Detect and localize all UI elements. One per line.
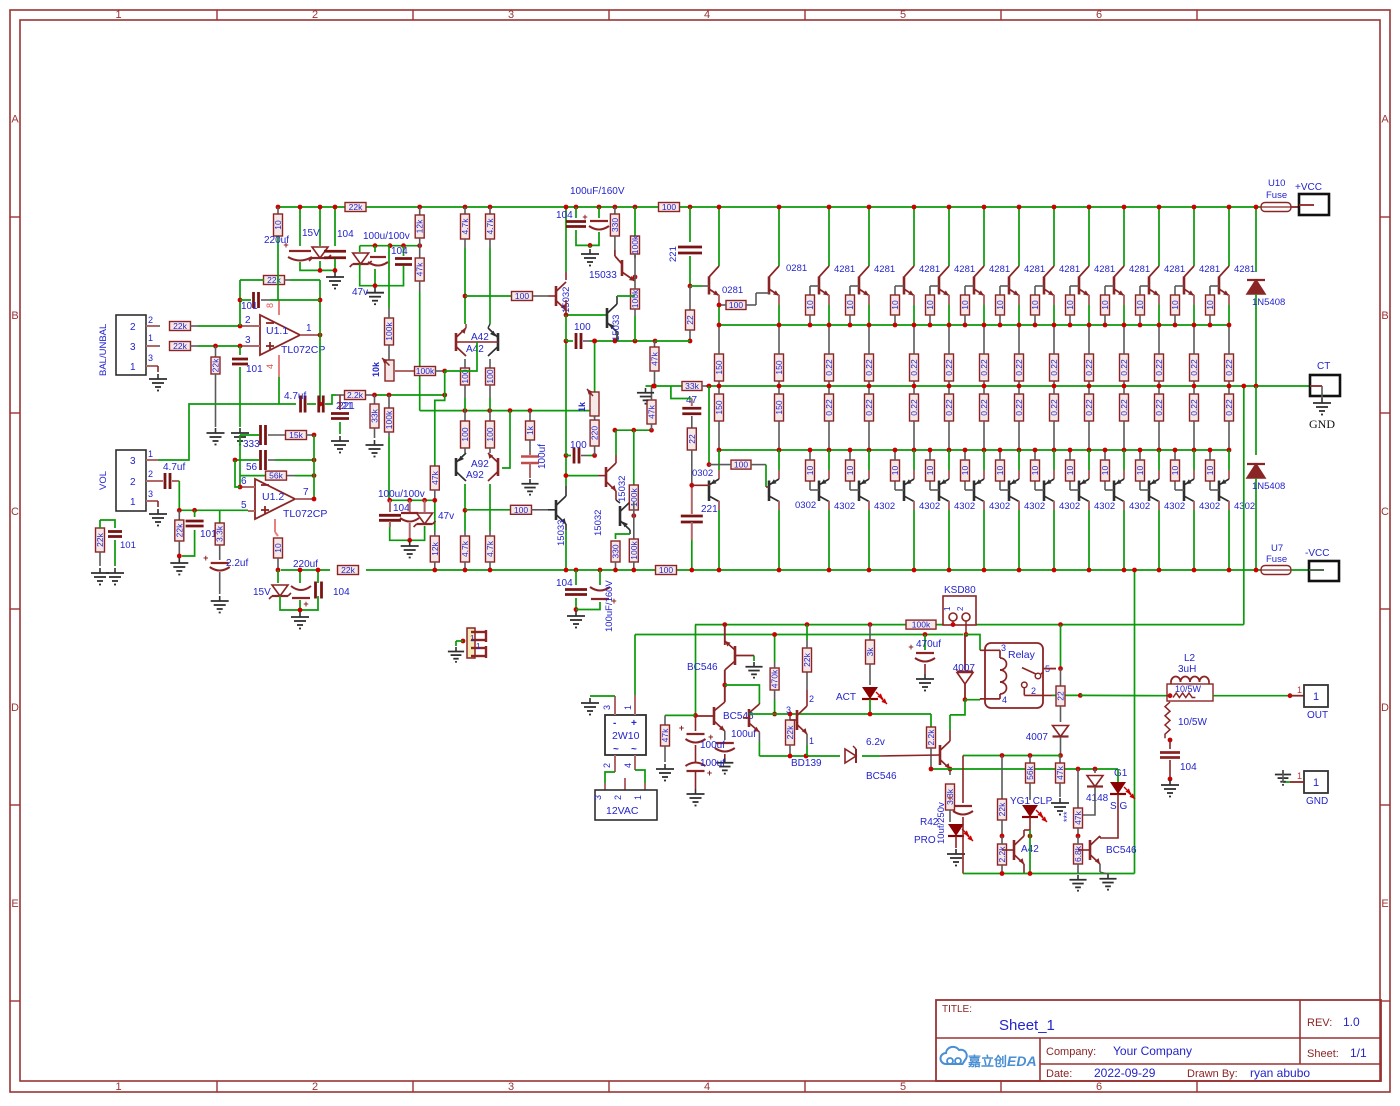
svg-text:10/5W: 10/5W [1178, 717, 1207, 728]
svg-text:3: 3 [508, 1081, 514, 1093]
svg-text:10: 10 [1030, 466, 1040, 476]
svg-text:4: 4 [623, 763, 633, 768]
svg-text:1: 1 [1313, 777, 1319, 789]
svg-text:4007: 4007 [1026, 732, 1049, 743]
svg-text:4007: 4007 [953, 663, 976, 674]
svg-text:A: A [11, 114, 19, 126]
svg-text:KSD80: KSD80 [944, 585, 976, 596]
svg-text:10: 10 [925, 466, 935, 476]
svg-text:100: 100 [515, 291, 529, 301]
svg-text:1: 1 [130, 497, 136, 508]
svg-text:+VCC: +VCC [1295, 182, 1322, 193]
svg-text:4: 4 [704, 1081, 710, 1093]
svg-text:2: 2 [130, 477, 136, 488]
svg-text:3uH: 3uH [1178, 664, 1196, 675]
svg-text:4.7uf: 4.7uf [163, 462, 185, 473]
svg-text:3: 3 [508, 9, 514, 21]
svg-text:0.22: 0.22 [944, 359, 954, 376]
svg-text:220: 220 [590, 426, 600, 440]
svg-text:2: 2 [312, 1081, 318, 1093]
svg-text:Sheet:: Sheet: [1307, 1048, 1339, 1060]
svg-text:10: 10 [805, 300, 815, 310]
svg-text:Company:: Company: [1046, 1046, 1096, 1058]
svg-text:0.22: 0.22 [864, 359, 874, 376]
svg-text:4281: 4281 [834, 264, 855, 275]
svg-text:4281: 4281 [1024, 264, 1045, 275]
svg-text:4.7uf: 4.7uf [284, 391, 306, 402]
svg-text:4302: 4302 [919, 501, 940, 512]
svg-text:15k: 15k [289, 430, 303, 440]
svg-text:2.2uf: 2.2uf [226, 558, 248, 569]
svg-text:100: 100 [460, 427, 470, 441]
svg-text:10uf/250v: 10uf/250v [936, 802, 947, 844]
svg-text:3: 3 [130, 456, 136, 467]
svg-text:100: 100 [659, 565, 673, 575]
svg-text:PRO: PRO [914, 835, 936, 846]
svg-text:3: 3 [1001, 643, 1006, 653]
svg-text:10: 10 [845, 466, 855, 476]
svg-text:1: 1 [115, 1081, 121, 1093]
svg-text:4: 4 [704, 9, 710, 21]
svg-text:4302: 4302 [1129, 501, 1150, 512]
svg-text:47k: 47k [415, 262, 425, 276]
svg-text:1N5408: 1N5408 [1252, 297, 1285, 308]
svg-text:330: 330 [611, 544, 621, 558]
svg-text:33k: 33k [685, 381, 699, 391]
svg-text:10: 10 [273, 220, 283, 230]
svg-text:12VAC: 12VAC [606, 805, 639, 817]
svg-text:C: C [1381, 506, 1389, 518]
svg-text:221: 221 [701, 504, 718, 515]
svg-text:22k: 22k [173, 321, 187, 331]
svg-text:47k: 47k [1055, 765, 1065, 779]
svg-text:1: 1 [943, 606, 952, 611]
svg-text:10: 10 [890, 300, 900, 310]
svg-text:100u/100v: 100u/100v [378, 489, 425, 500]
svg-text:3: 3 [593, 795, 603, 800]
svg-text:22k: 22k [997, 802, 1007, 816]
svg-text:0281: 0281 [722, 285, 743, 296]
svg-text:0.22: 0.22 [824, 399, 834, 416]
svg-text:2: 2 [148, 315, 153, 325]
svg-text:104: 104 [391, 246, 408, 257]
svg-text:BC546: BC546 [866, 771, 897, 782]
svg-text:OUT: OUT [1307, 710, 1328, 721]
svg-text:12k: 12k [415, 219, 425, 233]
svg-text:22k: 22k [95, 532, 105, 546]
svg-text:1: 1 [115, 9, 121, 21]
svg-text:3: 3 [245, 335, 251, 346]
svg-text:100uf: 100uf [537, 444, 548, 469]
svg-text:0.22: 0.22 [1119, 399, 1129, 416]
svg-text:100: 100 [574, 322, 591, 333]
svg-text:2.2k: 2.2k [997, 846, 1007, 863]
svg-text:1: 1 [148, 449, 153, 459]
svg-text:0.22: 0.22 [1014, 359, 1024, 376]
svg-text:E: E [11, 898, 18, 910]
svg-text:4148: 4148 [1086, 793, 1109, 804]
svg-text:Fuse: Fuse [1266, 554, 1287, 565]
svg-text:4302: 4302 [1024, 501, 1045, 512]
svg-text:E: E [1381, 898, 1388, 910]
svg-text:5: 5 [241, 500, 247, 511]
svg-text:4281: 4281 [1234, 264, 1255, 275]
svg-text:2: 2 [613, 795, 623, 800]
svg-text:6: 6 [1096, 9, 1102, 21]
svg-text:22k: 22k [173, 341, 187, 351]
svg-text:1: 1 [1297, 685, 1302, 695]
svg-text:1N5408: 1N5408 [1252, 481, 1285, 492]
svg-text:+: + [707, 768, 712, 778]
svg-text:4281: 4281 [919, 264, 940, 275]
svg-text:BC546: BC546 [687, 662, 718, 673]
svg-text:15032: 15032 [593, 510, 604, 536]
svg-text:101: 101 [246, 364, 263, 375]
svg-text:Drawn By:: Drawn By: [1187, 1068, 1238, 1080]
svg-text:1: 1 [306, 323, 312, 334]
svg-text:10: 10 [845, 300, 855, 310]
svg-text:10: 10 [273, 543, 283, 553]
svg-text:B: B [1381, 310, 1388, 322]
svg-text:+: + [947, 793, 952, 803]
svg-text:TITLE:: TITLE: [942, 1004, 972, 1015]
svg-text:4281: 4281 [1059, 264, 1080, 275]
svg-text:10k: 10k [371, 361, 381, 377]
svg-text:104: 104 [337, 229, 354, 240]
svg-text:4302: 4302 [989, 501, 1010, 512]
svg-text:4.7k: 4.7k [460, 540, 470, 557]
svg-text:100k: 100k [630, 235, 640, 254]
svg-text:100uf: 100uf [700, 740, 725, 751]
svg-text:Relay: Relay [1008, 649, 1036, 661]
svg-text:10: 10 [1100, 466, 1110, 476]
svg-text:0.22: 0.22 [909, 359, 919, 376]
svg-text:10: 10 [995, 466, 1005, 476]
svg-text:333: 333 [243, 439, 260, 450]
svg-text:15V: 15V [253, 587, 271, 598]
svg-text:100: 100 [514, 505, 528, 515]
svg-text:7: 7 [303, 487, 309, 498]
svg-text:ryan abubo: ryan abubo [1250, 1066, 1310, 1080]
svg-text:56: 56 [246, 462, 258, 473]
svg-text:101: 101 [120, 540, 136, 551]
svg-text:~: ~ [631, 744, 637, 755]
svg-text:5: 5 [900, 1081, 906, 1093]
svg-text:10: 10 [1135, 466, 1145, 476]
svg-text:22k: 22k [341, 565, 355, 575]
svg-text:470k: 470k [770, 669, 780, 688]
svg-text:10: 10 [1205, 300, 1215, 310]
svg-text:56k: 56k [1025, 765, 1035, 779]
svg-text:22k: 22k [174, 523, 184, 537]
svg-text:10: 10 [890, 466, 900, 476]
svg-text:47v: 47v [438, 511, 454, 522]
svg-text:0.22: 0.22 [1154, 359, 1164, 376]
svg-text:150: 150 [714, 400, 724, 414]
svg-text:100k: 100k [416, 366, 435, 376]
svg-text:Fuse: Fuse [1266, 190, 1287, 201]
svg-text:4281: 4281 [989, 264, 1010, 275]
svg-text:G1: G1 [1114, 768, 1128, 779]
svg-text:C: C [11, 506, 19, 518]
svg-text:0302: 0302 [692, 468, 713, 479]
svg-text:Sheet_1: Sheet_1 [999, 1017, 1055, 1034]
svg-text:1: 1 [470, 634, 475, 643]
svg-text:4281: 4281 [874, 264, 895, 275]
svg-text:3k: 3k [865, 647, 875, 657]
svg-text:3: 3 [148, 353, 153, 363]
svg-text:2022-09-29: 2022-09-29 [1094, 1066, 1156, 1080]
svg-text:EDA: EDA [1007, 1053, 1037, 1069]
svg-text:***: *** [1062, 811, 1072, 822]
svg-text:1: 1 [148, 333, 153, 343]
svg-text:4: 4 [1002, 695, 1007, 705]
svg-text:10: 10 [1030, 300, 1040, 310]
svg-text:+: + [283, 240, 288, 250]
svg-text:0.22: 0.22 [1189, 399, 1199, 416]
svg-text:4281: 4281 [1199, 264, 1220, 275]
svg-text:BC546: BC546 [1106, 845, 1137, 856]
svg-text:REV:: REV: [1307, 1017, 1332, 1029]
svg-text:56k: 56k [269, 471, 283, 481]
svg-text:22k: 22k [349, 202, 363, 212]
svg-text:1: 1 [130, 362, 136, 373]
svg-text:1: 1 [1313, 691, 1319, 703]
svg-text:2.2k: 2.2k [926, 729, 936, 746]
svg-text:6: 6 [241, 476, 247, 487]
svg-text:47k: 47k [647, 404, 657, 418]
svg-text:4.7k: 4.7k [460, 218, 470, 235]
svg-text:100k: 100k [384, 410, 394, 429]
svg-text:10: 10 [1205, 466, 1215, 476]
svg-text:4281: 4281 [954, 264, 975, 275]
svg-text:+: + [679, 723, 684, 733]
svg-text:0302: 0302 [795, 500, 816, 511]
svg-text:10: 10 [960, 300, 970, 310]
svg-text:BAL/UNBAL: BAL/UNBAL [98, 324, 109, 376]
svg-text:4.7k: 4.7k [485, 540, 495, 557]
svg-text:TL072CP: TL072CP [283, 508, 327, 520]
svg-text:10: 10 [1170, 300, 1180, 310]
svg-text:10: 10 [1100, 300, 1110, 310]
svg-text:0.22: 0.22 [944, 399, 954, 416]
svg-text:2: 2 [130, 322, 136, 333]
svg-text:A: A [1381, 114, 1389, 126]
svg-text:10/5W: 10/5W [1175, 684, 1202, 694]
svg-text:0.22: 0.22 [1084, 399, 1094, 416]
svg-text:2: 2 [956, 606, 965, 611]
svg-text:2: 2 [809, 694, 814, 704]
svg-text:100k: 100k [630, 289, 640, 308]
svg-text:2: 2 [245, 315, 251, 326]
svg-text:VOL: VOL [98, 471, 109, 490]
svg-text:2: 2 [602, 763, 612, 768]
svg-text:100: 100 [734, 460, 748, 470]
svg-text:-VCC: -VCC [1305, 548, 1329, 559]
svg-text:4302: 4302 [1199, 501, 1220, 512]
svg-text:100uF/160V: 100uF/160V [570, 186, 625, 197]
svg-text:47k: 47k [650, 351, 660, 365]
svg-text:100k: 100k [384, 322, 394, 341]
svg-text:10: 10 [1065, 300, 1075, 310]
svg-text:15V: 15V [302, 228, 320, 239]
svg-text:0281: 0281 [786, 263, 807, 274]
svg-text:104: 104 [556, 578, 573, 589]
svg-text:1: 1 [1297, 771, 1302, 781]
svg-text:100uf: 100uf [700, 758, 725, 769]
svg-text:101: 101 [241, 301, 258, 312]
svg-text:100k: 100k [629, 541, 639, 560]
svg-text:L2: L2 [1184, 653, 1196, 664]
svg-text:2: 2 [312, 9, 318, 21]
svg-text:BD139: BD139 [791, 758, 822, 769]
svg-text:4.7k: 4.7k [485, 218, 495, 235]
svg-text:10: 10 [1135, 300, 1145, 310]
svg-text:1k: 1k [525, 425, 535, 435]
svg-text:15032: 15032 [617, 476, 628, 502]
svg-text:104: 104 [556, 210, 573, 221]
svg-text:2W10: 2W10 [612, 730, 640, 742]
svg-text:100uf: 100uf [731, 729, 756, 740]
svg-text:10: 10 [925, 300, 935, 310]
svg-text:100: 100 [485, 369, 495, 383]
svg-text:TL072CP: TL072CP [281, 344, 325, 356]
svg-text:GND: GND [1306, 796, 1328, 807]
svg-text:0.22: 0.22 [1189, 359, 1199, 376]
svg-text:嘉立创: 嘉立创 [967, 1054, 1007, 1069]
svg-text:2: 2 [148, 469, 153, 479]
svg-text:22: 22 [685, 315, 695, 325]
svg-text:B: B [11, 310, 18, 322]
svg-text:330: 330 [610, 218, 620, 232]
svg-text:D: D [11, 702, 19, 714]
svg-text:47k: 47k [1073, 810, 1083, 824]
svg-text:0.22: 0.22 [979, 359, 989, 376]
svg-text:+: + [203, 553, 208, 563]
svg-text:100: 100 [485, 427, 495, 441]
svg-text:3: 3 [148, 489, 153, 499]
svg-text:0.22: 0.22 [1014, 399, 1024, 416]
svg-text:1/1: 1/1 [1350, 1046, 1367, 1060]
svg-text:104: 104 [333, 587, 350, 598]
svg-text:A42: A42 [466, 344, 484, 355]
svg-text:100k: 100k [912, 620, 931, 630]
svg-text:4: 4 [265, 364, 275, 369]
svg-text:4281: 4281 [1129, 264, 1150, 275]
svg-text:150: 150 [714, 360, 724, 374]
svg-text:GND: GND [1309, 417, 1335, 431]
svg-text:4281: 4281 [1094, 264, 1115, 275]
svg-text:0.22: 0.22 [1224, 359, 1234, 376]
svg-text:1.0: 1.0 [1343, 1015, 1360, 1029]
svg-text:1: 1 [809, 736, 814, 746]
svg-text:0.22: 0.22 [1049, 399, 1059, 416]
svg-text:4302: 4302 [834, 501, 855, 512]
svg-text:D: D [1381, 702, 1389, 714]
svg-text:4302: 4302 [954, 501, 975, 512]
svg-text:100uF/160V: 100uF/160V [604, 580, 615, 632]
svg-text:+: + [631, 718, 637, 729]
svg-text:6: 6 [1096, 1081, 1102, 1093]
svg-text:100: 100 [662, 202, 676, 212]
svg-text:10: 10 [960, 466, 970, 476]
svg-text:1: 1 [476, 642, 481, 651]
svg-text:10: 10 [805, 466, 815, 476]
svg-text:U1.1: U1.1 [266, 325, 288, 337]
svg-text:6.2v: 6.2v [866, 737, 885, 748]
svg-text:100u/100v: 100u/100v [363, 231, 410, 242]
svg-text:4302: 4302 [1059, 501, 1080, 512]
svg-text:470uf: 470uf [916, 639, 941, 650]
svg-text:22k: 22k [267, 275, 281, 285]
svg-text:U7: U7 [1271, 543, 1283, 554]
svg-text:0.22: 0.22 [864, 399, 874, 416]
svg-text:22: 22 [687, 434, 697, 444]
svg-text:0.22: 0.22 [1049, 359, 1059, 376]
svg-text:1k: 1k [577, 401, 587, 412]
svg-text:+: + [303, 599, 308, 609]
svg-text:YG1 CLP: YG1 CLP [1010, 796, 1053, 807]
svg-text:1: 1 [623, 705, 633, 710]
svg-text:4302: 4302 [1094, 501, 1115, 512]
svg-text:22: 22 [1056, 691, 1066, 701]
svg-text:10: 10 [1170, 466, 1180, 476]
svg-text:ACT: ACT [836, 692, 856, 703]
svg-text:8: 8 [265, 303, 275, 308]
svg-text:12k: 12k [430, 541, 440, 555]
svg-text:47k: 47k [660, 728, 670, 742]
svg-text:1: 1 [633, 795, 643, 800]
svg-text:150: 150 [774, 360, 784, 374]
svg-text:~: ~ [613, 744, 619, 755]
svg-text:2: 2 [1031, 686, 1036, 696]
svg-text:221: 221 [668, 246, 679, 262]
svg-text:3: 3 [786, 705, 791, 715]
svg-text:33k: 33k [370, 408, 380, 422]
svg-text:47k: 47k [430, 470, 440, 484]
svg-text:22k: 22k [211, 358, 221, 372]
svg-text:-: - [613, 718, 616, 729]
svg-text:A92: A92 [466, 470, 484, 481]
svg-text:22k: 22k [785, 725, 795, 739]
svg-text:0.22: 0.22 [824, 359, 834, 376]
svg-text:3: 3 [130, 342, 136, 353]
svg-text:4302: 4302 [874, 501, 895, 512]
svg-text:2.2k: 2.2k [347, 390, 364, 400]
svg-text:5: 5 [900, 9, 906, 21]
svg-text:15033: 15033 [589, 270, 617, 281]
svg-text:0.22: 0.22 [979, 399, 989, 416]
svg-text:220uf: 220uf [293, 559, 318, 570]
svg-text:CT: CT [1317, 361, 1330, 372]
svg-text:0.22: 0.22 [1084, 359, 1094, 376]
svg-text:U10: U10 [1268, 178, 1285, 189]
svg-text:22k: 22k [802, 652, 812, 666]
svg-text:0.22: 0.22 [1154, 399, 1164, 416]
svg-text:U1.2: U1.2 [262, 491, 284, 503]
svg-text:10: 10 [995, 300, 1005, 310]
svg-text:A92: A92 [471, 459, 489, 470]
svg-text:3: 3 [602, 705, 612, 710]
svg-text:Date:: Date: [1046, 1068, 1072, 1080]
svg-text:Your Company: Your Company [1113, 1044, 1192, 1058]
svg-text:0.22: 0.22 [1119, 359, 1129, 376]
svg-text:150: 150 [774, 400, 784, 414]
svg-text:47v: 47v [352, 287, 368, 298]
svg-text:104: 104 [1180, 762, 1197, 773]
svg-text:3.3k: 3.3k [215, 525, 225, 542]
svg-text:+: + [582, 212, 587, 222]
